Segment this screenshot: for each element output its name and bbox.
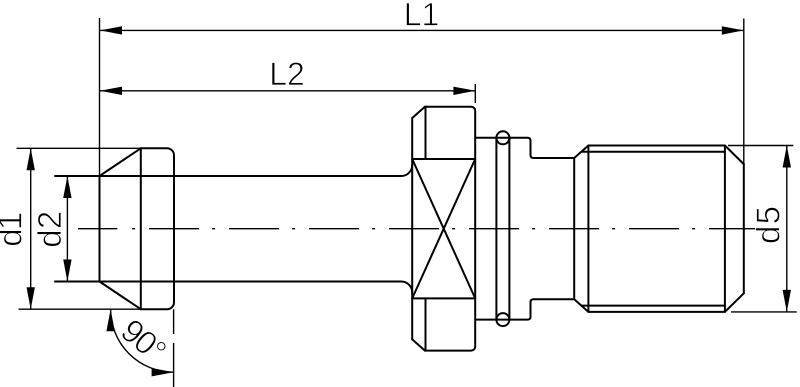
flange chamfer bottom-left (412, 339, 425, 350)
oring silhouette left (495, 138, 497, 320)
flange left edge (411, 118, 413, 339)
extension d5 bottom (731, 311, 797, 313)
dimension line d2 (66, 176, 68, 282)
square flats diagonal 2 (412, 159, 475, 298)
arrow d1 top (27, 148, 35, 170)
angle extension line lower (173, 343, 175, 387)
extension line L2 right (474, 84, 476, 103)
node d2-line-top (extension + head face + shaft top) (55, 175, 401, 177)
extension d5 top (728, 145, 793, 147)
flange chamfer edge bottom (425, 298, 427, 350)
arrow L2 left (100, 87, 122, 95)
arrow angle lower (152, 368, 174, 376)
square flats diagonal 1 (412, 159, 475, 298)
stud right end face (743, 164, 745, 293)
node d2-line-bottom (extension + shaft bottom) (55, 281, 401, 283)
arrow d2 top (63, 176, 71, 198)
fillet shaft to flange top (401, 165, 412, 176)
arrow L1 left (100, 26, 122, 34)
extension line L1 right (743, 19, 745, 165)
arrow d5 bottom (783, 290, 791, 312)
svg-text:d1: d1 (0, 212, 29, 247)
centerline axis (78, 228, 761, 230)
dimension line d5 (786, 146, 788, 312)
thread root lower (582, 305, 725, 307)
svg-text:L1: L1 (404, 0, 440, 33)
dimension line L1 (100, 29, 744, 31)
arrow d1 bottom (27, 287, 35, 309)
head cone-cylinder edge (140, 148, 142, 309)
angle extension line upper (173, 309, 175, 334)
oring silhouette right (508, 138, 510, 320)
head cone lower (100, 282, 141, 310)
head left face (99, 176, 101, 282)
extension d1 bottom (19, 308, 141, 310)
thread runout edge left (587, 146, 589, 312)
svg-text:d2: d2 (31, 211, 68, 248)
arrow angle upper (106, 309, 114, 331)
arrow L2 right (453, 87, 475, 95)
thread runout edge right (724, 146, 726, 312)
angle dimension arc (111, 309, 174, 372)
svg-text:d5: d5 (750, 206, 787, 244)
gripper square bottom edge (412, 297, 475, 299)
flange chamfer edge top (425, 107, 427, 159)
thread root upper (582, 151, 725, 153)
dimension line L2 (100, 90, 475, 92)
arrow d5 top (783, 146, 791, 168)
flange disk outline (425, 107, 475, 351)
oring upper cross-section (496, 131, 509, 144)
head cylinder outline (141, 148, 174, 309)
gripper square top edge (412, 158, 475, 160)
fillet shaft to flange bottom (401, 282, 412, 293)
extension line left (99, 18, 101, 176)
oring land and thread upper profile (476, 138, 744, 164)
extension d1 top (17, 147, 141, 149)
arrow L1 right (722, 26, 744, 34)
arrow d2 bottom (63, 260, 71, 282)
collar-thread edge (573, 158, 575, 299)
svg-text:L2: L2 (269, 56, 305, 92)
dimension line d1 (30, 148, 32, 309)
oring lower cross-section (496, 313, 509, 326)
oring land and thread lower profile (476, 293, 744, 319)
flange chamfer top-left (412, 107, 425, 118)
head cone upper (100, 148, 141, 176)
